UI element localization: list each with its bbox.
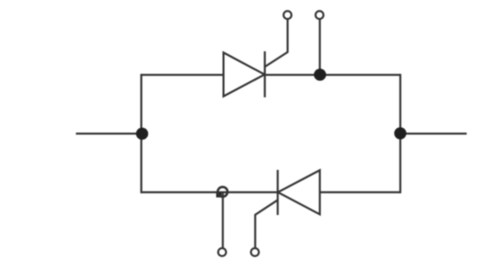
node left junction	[136, 128, 148, 140]
wire right vertical	[399, 74, 401, 193]
wire D1 gate lead	[265, 19, 288, 67]
wire bottom bus	[141, 191, 400, 193]
thyristor D1 triangle (anode left, pointing right)	[224, 53, 265, 97]
terminal G1 circle	[284, 11, 292, 19]
terminal G2 circle	[251, 248, 259, 256]
node D1 cathode junction	[314, 69, 326, 81]
terminal K2 circle	[218, 248, 226, 256]
thyristor D1 cathode bar	[264, 51, 266, 97]
thyristor D2 cathode bar	[277, 170, 279, 215]
wire right terminal lead	[400, 133, 466, 135]
node right junction	[394, 127, 406, 139]
wire left terminal lead	[76, 133, 141, 135]
terminal ring on bottom bus	[218, 187, 228, 197]
node D2 junction square	[216, 193, 221, 198]
wire top bus	[141, 74, 400, 76]
wire left vertical	[140, 74, 142, 193]
wire D1 cathode terminal drop	[319, 19, 321, 74]
terminal K1 circle	[316, 11, 324, 19]
thyristor D2 triangle (anode right, pointing left)	[278, 170, 320, 214]
wire D2 gate lead	[255, 200, 278, 248]
wire D2 cathode terminal drop	[222, 192, 224, 248]
